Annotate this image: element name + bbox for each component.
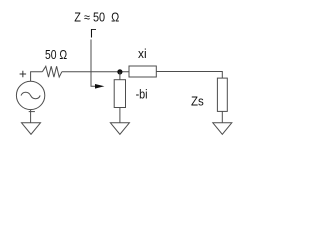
ground (Zs) (213, 123, 232, 135)
svg-text:50 Ω: 50 Ω (45, 48, 67, 62)
svg-text:xi: xi (138, 47, 147, 61)
load impedance box Zs (217, 78, 227, 111)
source bottom lead (30, 110, 32, 123)
reactance box -bi (shunt) (114, 80, 125, 108)
wire xi box to Zs (156, 72, 222, 79)
wire node to -bi box (119, 72, 121, 80)
node junction dot (117, 69, 122, 74)
wire source top lead (31, 72, 43, 82)
wire Zs box to ground (221, 111, 223, 122)
svg-text:Γ: Γ (90, 29, 97, 41)
resistor R1 50 Ω zigzag (42, 66, 62, 77)
svg-text:Z ≈ 50 Ω: Z ≈ 50 Ω (74, 10, 119, 24)
wire -bi box to ground (119, 108, 121, 123)
+ terminal mark (20, 71, 27, 78)
AC source sine wave (21, 92, 40, 98)
wire resistor to xi box (62, 71, 129, 73)
AC source V1 circle (16, 81, 44, 109)
reactance box xi (series) (129, 66, 156, 77)
svg-text:Zs: Zs (191, 94, 204, 108)
- terminal tick (29, 111, 35, 113)
svg-text:-bi: -bi (136, 88, 148, 102)
ground (source) (22, 123, 41, 135)
Γ reference arrow (bent: down then right) (91, 40, 96, 87)
ground (-bi stub) (110, 123, 129, 135)
